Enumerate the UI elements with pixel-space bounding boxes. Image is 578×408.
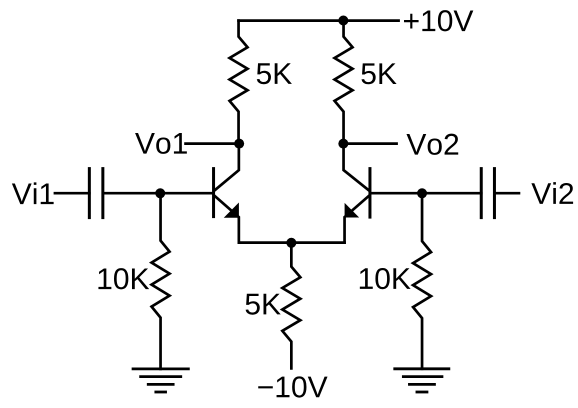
resistor RC2 5K (right collector load) <box>335 21 353 144</box>
transistor Q2 (right NPN) <box>344 144 370 243</box>
value label 10K (RB2) <box>360 268 411 289</box>
value label 10K (RB1) <box>98 268 149 289</box>
resistor RE 5K (tail to -10V) <box>282 243 300 369</box>
wire: +10V supply rail <box>239 19 399 22</box>
node: Q2 base junction <box>417 188 427 198</box>
wire: C1 to Q1 base <box>103 192 214 195</box>
ground (right) <box>395 369 449 392</box>
node Vo1 <box>234 139 244 149</box>
node: tail junction <box>286 238 296 248</box>
resistor RC1 5K (left collector load) <box>230 21 248 144</box>
wire: Vo2 stub <box>343 142 396 145</box>
capacitor C2 (Vi2 coupling) <box>481 169 519 218</box>
node Vo2 <box>338 139 348 149</box>
wire: Q2 base to C2 <box>370 192 481 195</box>
transistor Q1 (left NPN) <box>214 144 239 243</box>
label Vo1 <box>135 133 187 154</box>
value label 5K (RE) <box>246 294 281 315</box>
label Vo2 <box>406 134 458 155</box>
label +10V <box>404 10 473 31</box>
node: Q1 base junction <box>155 188 165 198</box>
label -10V <box>258 376 327 397</box>
ground (left) <box>133 369 188 392</box>
node: supply rail junction <box>338 16 348 26</box>
label Vi2 <box>531 182 573 204</box>
value label 5K (RC1) <box>257 63 292 84</box>
label Vi1 <box>12 182 54 204</box>
resistor RB2 10K (right base to ground) <box>413 193 431 369</box>
capacitor C1 (Vi1 coupling) <box>55 169 103 218</box>
resistor RB1 10K (left base to ground) <box>152 193 170 369</box>
wire: Vo1 stub <box>186 142 240 145</box>
value label 5K (RC2) <box>361 63 396 84</box>
wire: common emitter tail <box>239 241 345 244</box>
